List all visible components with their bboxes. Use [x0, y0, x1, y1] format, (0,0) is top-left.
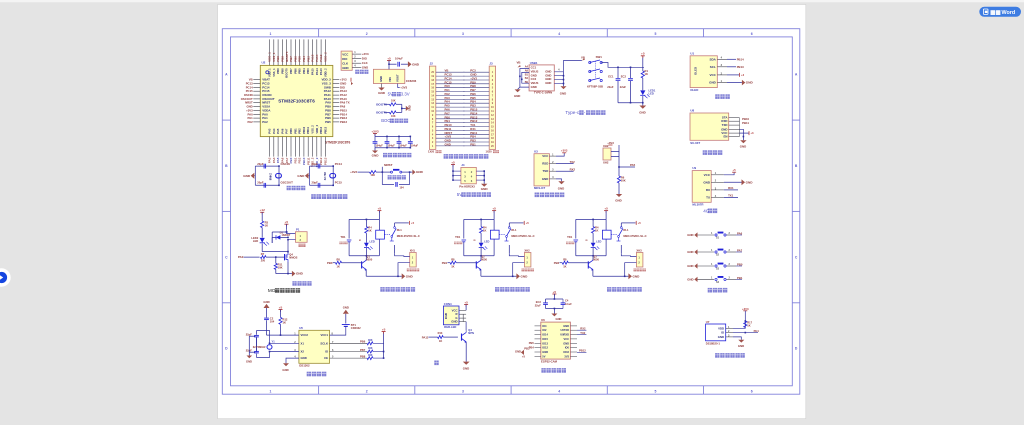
GND pin row 4 [286, 358, 299, 363]
svg-text:30K: 30K [368, 347, 373, 350]
svg-text:GND: GND [703, 180, 711, 184]
svg-text:RX: RX [706, 188, 710, 192]
4G VCC to +5 [724, 172, 734, 175]
svg-text:USB1: USB1 [530, 61, 538, 65]
svg-text:RL1: RL1 [511, 228, 517, 232]
svg-text:STM32F103C8T6: STM32F103C8T6 [325, 140, 351, 144]
svg-text:TYPE-C-16PIN: TYPE-C-16PIN [534, 91, 552, 95]
svg-text:PA4: PA4 [754, 329, 760, 333]
svg-text:PA4: PA4 [272, 128, 276, 134]
svg-text:PB0: PB0 [289, 128, 293, 134]
svg-text:PB2: PB2 [554, 261, 560, 265]
svg-text:BOOT0: BOOT0 [285, 68, 289, 78]
4G RX TX [724, 189, 738, 191]
svg-text:VOUT: VOUT [396, 74, 400, 82]
svg-text:GND: GND [738, 344, 744, 348]
blood pressure module U3 [534, 154, 549, 186]
svg-text:1K: 1K [645, 72, 648, 76]
caption fuwei dianlu [388, 175, 392, 179]
crystal circuit Y1 8MHz [254, 166, 256, 185]
R12 + +5 [279, 309, 283, 311]
frame column ticks and numbers [318, 29, 320, 37]
BP VCC to +3V3 [556, 153, 564, 156]
transistor Q5 [461, 334, 463, 341]
XH2 wires [611, 145, 619, 152]
resistor R6 10K [617, 176, 620, 183]
svg-text:PB8: PB8 [280, 68, 284, 74]
svg-text:4: 4 [558, 389, 560, 393]
svg-text:+3V3: +3V3 [371, 129, 379, 133]
caption xueya jiance mokuai [535, 193, 539, 198]
svg-text:RX2: RX2 [570, 168, 576, 172]
svg-text:RL1: RL1 [397, 228, 403, 232]
svg-text:GND: GND [563, 324, 569, 328]
svg-text:TX: TX [706, 195, 710, 199]
4G module U9 ML307R [692, 171, 711, 203]
svg-text:R13: R13 [438, 331, 443, 335]
svg-text:U3: U3 [534, 149, 538, 153]
crystal circuit Y2 32.768kHz [309, 166, 311, 185]
svg-text:J3: J3 [489, 62, 493, 66]
svg-text:8050: 8050 [481, 257, 487, 261]
Type-C right wires to bus [554, 71, 563, 73]
svg-text:RSD: RSD [542, 162, 548, 166]
temperature module U7 DS18B20 [706, 324, 726, 341]
svg-text:GND: GND [445, 142, 451, 146]
svg-text:GND: GND [406, 274, 414, 278]
svg-text:VB: VB [517, 61, 521, 65]
svg-text:PB6: PB6 [293, 68, 297, 74]
svg-text:+5: +5 [641, 52, 645, 56]
svg-text:GND: GND [718, 335, 724, 339]
svg-text:104uF: 104uF [376, 145, 384, 148]
svg-text:VSS_2: VSS_2 [311, 125, 315, 134]
svg-text:8050: 8050 [593, 257, 599, 261]
svg-text:104: 104 [400, 186, 405, 189]
caption xiazaikou [355, 70, 359, 74]
regulator U4 XC6206 [373, 69, 404, 83]
svg-text:IO4: IO4 [542, 324, 547, 328]
svg-text:GND: GND [746, 81, 754, 85]
svg-text:RX1: RX1 [728, 186, 734, 190]
svg-text:OLED: OLED [694, 67, 698, 75]
cap EC1 22uF [617, 67, 619, 78]
wire to drain node [262, 251, 288, 253]
svg-text:PB5: PB5 [298, 68, 302, 74]
VCC2 wire [267, 334, 299, 336]
svg-text:PA13: PA13 [319, 68, 323, 75]
svg-text:TD1: TD1 [567, 235, 573, 239]
svg-text:LED: LED [484, 240, 489, 244]
OLED module U1 [690, 56, 717, 88]
svg-text:+3V3: +3V3 [607, 141, 614, 145]
svg-text:SU-03T: SU-03T [690, 141, 700, 145]
svg-text:6: 6 [751, 389, 753, 393]
svg-text:PB3: PB3 [306, 68, 310, 74]
svg-text:PB2: PB2 [298, 128, 302, 134]
svg-text:+5: +5 [411, 221, 415, 225]
svg-text:5: 5 [654, 32, 656, 36]
Type-C GND right [563, 84, 565, 86]
svg-text:200: 200 [261, 260, 266, 263]
svg-text:PB7: PB7 [360, 348, 366, 352]
svg-text:GND: GND [687, 233, 693, 237]
svg-text:PB13: PB13 [324, 157, 328, 165]
svg-text:20pF: 20pF [257, 162, 264, 166]
svg-text:+5: +5 [378, 206, 382, 210]
diode D1 1N4007 [272, 236, 276, 238]
svg-text:PA2: PA2 [262, 120, 268, 124]
svg-text:GND: GND [296, 272, 304, 276]
svg-text:1K: 1K [747, 323, 750, 327]
svg-text:R8: R8 [337, 257, 341, 261]
svg-text:CLK: CLK [342, 61, 349, 65]
camera right nets [577, 329, 586, 331]
svg-text:LED: LED [253, 239, 258, 243]
svg-text:1K: 1K [265, 224, 268, 228]
svg-text:XH1: XH1 [410, 248, 416, 252]
BP TX RX [556, 163, 574, 165]
pin header J3 1X20 right [489, 66, 495, 149]
svg-text:SDA: SDA [709, 57, 716, 61]
caption jingzhen dianlu [287, 186, 291, 190]
svg-text:PA5: PA5 [630, 163, 636, 167]
caption wendu caiji mokuai [715, 353, 719, 358]
svg-text:1K: 1K [283, 320, 286, 324]
svg-text:PB12: PB12 [340, 120, 347, 124]
svg-text:GND: GND [243, 174, 251, 178]
svg-text:+3: +3 [750, 131, 754, 135]
svg-text:1K: 1K [337, 264, 340, 268]
svg-text:PA2: PA2 [247, 120, 253, 124]
svg-text:+3V3: +3V3 [742, 307, 749, 311]
svg-text:NMOS: NMOS [289, 256, 297, 260]
svg-text:VIN: VIN [388, 77, 392, 82]
VBUS wire up to switch [564, 61, 582, 72]
BP GND [556, 179, 562, 181]
svg-text:1K: 1K [595, 228, 598, 232]
side floating circle button [0, 268, 11, 286]
svg-text:PB4: PB4 [302, 68, 306, 74]
cap C4 0.1uF [562, 299, 564, 303]
svg-text:MED-05VDC-SL-C: MED-05VDC-SL-C [397, 234, 420, 238]
svg-text:U5: U5 [299, 326, 303, 330]
svg-text:GND: GND [542, 177, 548, 181]
svg-text:C4: C4 [565, 299, 569, 303]
svg-text:RX2: RX2 [580, 327, 586, 331]
NMOS Q4 [287, 252, 289, 254]
emitter to GND [465, 342, 467, 362]
svg-text:+5: +5 [604, 206, 608, 210]
svg-text:MED-05VDC-SL-C: MED-05VDC-SL-C [623, 234, 646, 238]
svg-text:NRST: NRST [384, 163, 393, 167]
svg-text:LED: LED [596, 240, 601, 244]
svg-text:GND: GND [378, 91, 386, 95]
OLED net wires [727, 58, 736, 60]
svg-text:VDD_2: VDD_2 [324, 52, 328, 62]
svg-text:GND: GND [263, 300, 269, 304]
svg-text:VDD_2: VDD_2 [323, 68, 327, 77]
svg-text:U8: U8 [690, 109, 694, 113]
svg-text:104uF: 104uF [400, 145, 408, 148]
svg-text:STM32F103C8T6: STM32F103C8T6 [278, 99, 315, 104]
svg-text:+3V3: +3V3 [362, 52, 369, 56]
svg-text:OSCOUT: OSCOUT [281, 181, 294, 185]
svg-text:PB6: PB6 [360, 340, 366, 344]
MCU U2 STM32F103C8T6 [260, 65, 333, 136]
svg-text:IO12: IO12 [542, 346, 548, 350]
svg-text:DS1302: DS1302 [299, 364, 310, 368]
svg-text:Type-c: Type-c [565, 110, 579, 115]
svg-text:DIO: DIO [342, 57, 348, 61]
+3V3 bar on MCU right row1 [350, 78, 352, 82]
svg-text:J4: J4 [461, 163, 465, 167]
pullup R14 [330, 342, 368, 344]
svg-text:J2: J2 [430, 62, 434, 66]
pin header J2 1X20 left [429, 66, 435, 149]
convert-to-word button [979, 7, 1021, 17]
svg-text:P1: P1 [296, 228, 300, 232]
caption shuchu kongzhi [292, 281, 296, 286]
svg-text:8MHZ: 8MHZ [269, 173, 273, 181]
svg-text:5: 5 [654, 389, 656, 393]
svg-text:30K: 30K [368, 339, 373, 342]
frame row ticks and letters [222, 119, 230, 121]
GND row [733, 337, 741, 340]
svg-text:XC6206: XC6206 [406, 79, 417, 83]
svg-text:GND: GND [372, 154, 380, 158]
svg-text:104: 104 [270, 320, 275, 324]
svg-text:+5: +5 [451, 160, 455, 164]
svg-text:+3: +3 [741, 73, 745, 77]
pullup R15 [330, 351, 368, 353]
svg-text:PA6: PA6 [280, 128, 284, 134]
switch output wires [601, 63, 644, 68]
caption shexiangtou mokuai [541, 368, 545, 373]
svg-text:104uF: 104uF [395, 57, 403, 61]
svg-text:SCL: SCL [710, 65, 716, 69]
svg-text:PB12: PB12 [579, 349, 586, 353]
svg-text:GND: GND [687, 264, 693, 268]
lamp connector U11 [443, 306, 459, 325]
svg-text:GND: GND [709, 81, 717, 85]
svg-text:+12: +12 [260, 208, 266, 212]
svg-text:+5: +5 [279, 305, 283, 309]
svg-text:VCC: VCC [542, 154, 549, 158]
pulldown R11 10K [275, 257, 277, 263]
svg-text:PB4: PB4 [529, 345, 535, 349]
svg-text:PA7: PA7 [285, 128, 289, 134]
svg-text:U7: U7 [706, 320, 710, 324]
svg-text:PB1: PB1 [737, 276, 743, 280]
bottom gnd rail [618, 102, 643, 104]
svg-text:+5: +5 [522, 355, 526, 359]
svg-text:32.768: 32.768 [323, 172, 327, 181]
svg-text:GND: GND [558, 186, 564, 190]
svg-text:1K: 1K [563, 264, 566, 268]
svg-text:IO14: IO14 [542, 333, 548, 337]
caption danpianji zuixiao xitong [311, 194, 316, 199]
svg-text:VSS_1: VSS_1 [272, 68, 276, 77]
svg-text:U6: U6 [541, 318, 545, 322]
svg-text:OSCIN: OSCIN [281, 162, 290, 166]
svg-text:X1: X1 [301, 341, 305, 345]
svg-text:PC15: PC15 [335, 181, 343, 185]
svg-text:22uF: 22uF [607, 85, 614, 89]
svg-text:PB11: PB11 [306, 127, 310, 134]
svg-text:104uF: 104uF [388, 145, 396, 148]
svg-text:PA3: PA3 [268, 128, 272, 134]
svg-text:GND: GND [633, 274, 641, 278]
+5V input [387, 60, 391, 62]
svg-text:ML307R: ML307R [692, 202, 704, 206]
resistor R1 1K [642, 56, 644, 71]
svg-text:GND: GND [412, 62, 420, 66]
svg-text:1X20: 1X20 [486, 150, 493, 154]
svg-text:TX1: TX1 [728, 194, 734, 198]
svg-text:CR2032: CR2032 [351, 326, 361, 330]
svg-text:PB13: PB13 [737, 65, 744, 69]
svg-text:VCC: VCC [342, 52, 349, 56]
BOOT net join wire [401, 104, 403, 112]
svg-text:PB10: PB10 [302, 126, 306, 133]
MCU top pins [269, 39, 271, 65]
relay block relay3 [604, 210, 608, 212]
svg-text:IO15: IO15 [542, 337, 548, 341]
svg-text:PB7: PB7 [289, 68, 293, 74]
svg-text:GND: GND [481, 187, 489, 191]
svg-text:U1: U1 [690, 51, 694, 55]
svg-text:IO16: IO16 [563, 350, 569, 354]
svg-text:1K: 1K [451, 264, 454, 268]
IO row [733, 332, 758, 334]
relay block relay2 [492, 210, 496, 212]
svg-text:1: 1 [269, 32, 271, 36]
svg-text:22pF: 22pF [246, 332, 252, 336]
source to gnd rail [287, 262, 289, 274]
clock module U5 DS1302 [299, 330, 330, 363]
svg-text:PC14: PC14 [335, 162, 343, 166]
svg-text:10K: 10K [391, 100, 396, 103]
resistor R3 [261, 221, 264, 228]
svg-text:OLED: OLED [690, 88, 698, 92]
svg-text:GND: GND [514, 94, 520, 98]
svg-text:GND: GND [563, 341, 569, 345]
Type-C left wires [520, 69, 529, 88]
svg-text:1K: 1K [439, 339, 442, 343]
white document sheet [218, 5, 806, 419]
svg-text:104uF: 104uF [411, 145, 419, 148]
svg-text:IO0: IO0 [565, 346, 570, 350]
svg-text:GND: GND [416, 170, 424, 174]
top light strip [0, 0, 1024, 2]
svg-text:MKS-I4T: MKS-I4T [534, 186, 545, 190]
svg-text:GND: GND [687, 277, 693, 281]
svg-text:3: 3 [462, 389, 464, 393]
svg-text:GND: GND [542, 350, 548, 354]
svg-text:PB12: PB12 [319, 126, 323, 133]
svg-text:+5: +5 [733, 168, 737, 172]
svg-text:GND: GND [545, 81, 551, 85]
VOUT wire +3V3 [398, 84, 400, 88]
svg-text:4: 4 [558, 32, 560, 36]
svg-text:EC1: EC1 [608, 75, 614, 79]
svg-text:PB0: PB0 [737, 262, 743, 266]
svg-text:NPN: NPN [468, 331, 474, 335]
button label [991, 10, 996, 15]
svg-text:PA6: PA6 [737, 231, 743, 235]
svg-text:+5: +5 [464, 300, 468, 304]
svg-text:PA14: PA14 [315, 68, 319, 75]
svg-text:3: 3 [462, 32, 464, 36]
svg-text:PB14: PB14 [737, 57, 744, 61]
output connector P1 [296, 232, 308, 243]
svg-text:U2: U2 [262, 61, 266, 65]
svg-text:PB5: PB5 [529, 341, 535, 345]
svg-text:PA7: PA7 [737, 248, 743, 252]
P1 pin2 wire to drain rail [288, 240, 296, 252]
4G GND [724, 181, 742, 183]
relay block relay1 [377, 210, 381, 212]
svg-text:DIO: DIO [362, 57, 368, 61]
svg-text:CLK: CLK [362, 61, 368, 65]
svg-text:GND: GND [687, 250, 693, 254]
svg-text:+5: +5 [387, 56, 391, 60]
svg-text:KFT08P-03B: KFT08P-03B [587, 85, 603, 89]
R17 [744, 321, 747, 328]
svg-text:3.3V: 3.3V [401, 92, 410, 97]
svg-text:GND: GND [362, 66, 368, 70]
svg-text:GND: GND [521, 274, 529, 278]
svg-text:+5: +5 [382, 327, 386, 331]
caption shizhong mokuai [307, 372, 311, 377]
svg-text:X2: X2 [301, 350, 305, 354]
svg-text:GND: GND [615, 199, 621, 203]
svg-text:10K: 10K [621, 179, 626, 183]
pullup R16 [330, 357, 368, 359]
svg-text:LED: LED [370, 240, 375, 244]
svg-text:22uF: 22uF [535, 304, 541, 308]
svg-text:1K: 1K [368, 228, 371, 232]
reset button S5 [382, 171, 390, 173]
svg-text:+3V3: +3V3 [400, 86, 407, 90]
svg-text:PB1: PB1 [470, 142, 476, 146]
svg-text:GND: GND [301, 356, 307, 360]
svg-text:GND: GND [451, 320, 457, 324]
svg-text:EN: EN [723, 135, 727, 139]
voice GND [742, 137, 744, 141]
svg-text:LED: LED [649, 92, 654, 96]
cap EC3 [545, 299, 547, 303]
svg-text:DS18B20-1: DS18B20-1 [706, 342, 721, 346]
svg-text:+5: +5 [492, 206, 496, 210]
svg-text:GND: GND [408, 105, 412, 111]
svg-text:+3V3: +3V3 [350, 170, 357, 174]
svg-text:PB13: PB13 [323, 126, 327, 133]
svg-text:1: 1 [269, 389, 271, 393]
crystal Y1 32.768KHZ [256, 337, 258, 352]
svg-text:VDD_2: VDD_2 [315, 124, 319, 133]
camera +5 and caps [552, 293, 556, 295]
svg-text:0.1uF: 0.1uF [565, 302, 572, 306]
svg-text:PB0: PB0 [327, 261, 333, 265]
svg-text:XH2: XH2 [524, 248, 530, 252]
regulator GND arrow [381, 84, 383, 88]
svg-text:GND: GND [246, 360, 252, 364]
X1 row [254, 334, 259, 336]
svg-text:Y1: Y1 [272, 339, 276, 343]
svg-text:MED-05VDC-SL-C: MED-05VDC-SL-C [511, 234, 534, 238]
